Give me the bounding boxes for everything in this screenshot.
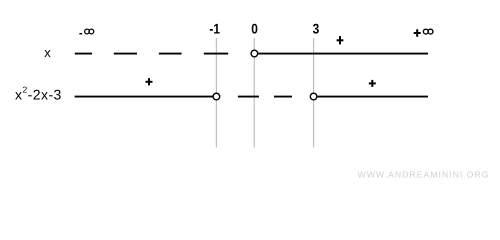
vertical guide line at 3	[313, 38, 315, 148]
row x dashed segment dash 4	[204, 53, 228, 55]
row x solid positive segment	[258, 53, 428, 55]
row x^2-2x-3 open circle at 3	[310, 93, 317, 100]
row x^2-2x-3 open circle at -1	[213, 93, 220, 100]
row x open circle at 0	[251, 50, 258, 57]
row x^2-2x-3 left plus sign	[146, 78, 153, 85]
row x dashed segment dash 2	[114, 53, 137, 55]
label +infinity symbol	[423, 29, 433, 34]
row x^2-2x-3 solid left positive segment	[75, 96, 213, 98]
svg-text:x2-2x-3: x2-2x-3	[15, 84, 62, 102]
svg-text:3: 3	[313, 21, 320, 37]
label -infinity symbol	[85, 29, 94, 34]
vertical guide line at -1	[215, 38, 217, 148]
label +infinity plus	[414, 29, 421, 37]
row x^2-2x-3 dash 2	[274, 96, 292, 98]
row x^2-2x-3 right plus sign	[369, 80, 376, 87]
row x plus sign	[337, 36, 344, 44]
row x dashed segment dash 1	[75, 53, 92, 55]
svg-text:x: x	[44, 45, 51, 60]
row x^2-2x-3 solid right positive segment	[318, 96, 428, 98]
vertical guide line at 0	[253, 38, 255, 148]
svg-text:-1: -1	[209, 21, 220, 37]
row x dashed segment dash 3	[159, 53, 182, 55]
row x^2-2x-3 dash 1	[238, 96, 259, 98]
label -infinity minus	[79, 33, 82, 35]
svg-text:WWW.ANDREAMININI.ORG: WWW.ANDREAMININI.ORG	[358, 169, 490, 179]
svg-text:0: 0	[251, 21, 258, 37]
